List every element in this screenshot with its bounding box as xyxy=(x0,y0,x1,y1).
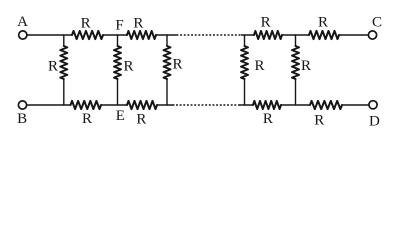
wire bottom rail: B to R5 xyxy=(27,104,71,106)
wire top rail: R1 to R2 (node F) xyxy=(103,34,127,36)
wire bottom rail: R5 to R6 (node E) xyxy=(101,104,127,106)
svg-text:R: R xyxy=(136,112,146,128)
wire top rail: A to R1 xyxy=(27,34,72,36)
svg-text:R: R xyxy=(254,58,264,74)
terminal C xyxy=(368,31,376,39)
svg-text:R: R xyxy=(318,15,328,31)
terminal A xyxy=(19,31,27,39)
wire vertical lead top of R10 xyxy=(117,35,119,46)
resistor R8 (bottom right, horizontal, bottom rail) xyxy=(310,101,342,109)
svg-text:D: D xyxy=(369,113,380,129)
resistor R10 (vertical rung 2) xyxy=(114,46,121,79)
wire vertical lead top of R11 xyxy=(166,35,168,46)
wire vertical lead bottom of R9 xyxy=(63,79,65,105)
svg-text:R: R xyxy=(261,15,271,31)
resistor R13 (vertical rung 5) xyxy=(292,46,299,79)
svg-text:B: B xyxy=(17,111,27,127)
wire vertical lead bottom of R11 xyxy=(166,79,168,105)
wire bottom rail: R6 to dotted break xyxy=(157,104,174,106)
wire vertical lead bottom of R13 xyxy=(295,79,297,105)
wire top rail: R4 to C xyxy=(339,34,368,36)
wire vertical lead top of R13 xyxy=(295,35,297,46)
wire vertical lead bottom of R12 xyxy=(244,79,246,105)
resistor R11 (vertical rung 3) xyxy=(164,46,171,79)
wire vertical lead bottom of R10 xyxy=(117,79,119,105)
terminal D xyxy=(369,101,377,109)
svg-text:R: R xyxy=(172,57,182,73)
svg-text:E: E xyxy=(116,108,125,124)
svg-text:R: R xyxy=(123,59,133,75)
svg-text:A: A xyxy=(17,14,28,30)
resistor R1 (top left, horizontal, top rail) xyxy=(72,31,103,39)
resistor R12 (vertical rung 4) xyxy=(241,46,248,79)
wire vertical lead top of R12 xyxy=(244,35,246,46)
svg-text:F: F xyxy=(115,18,123,34)
wire bottom rail: R8 to D xyxy=(342,104,369,106)
wire vertical lead top of R9 xyxy=(63,35,65,46)
wire top rail: dotted break to R3 xyxy=(242,34,255,36)
resistor R7 (bottom third, horizontal, bottom rail) xyxy=(253,101,281,109)
wire top rail: R2 to dotted break xyxy=(156,34,176,36)
resistor R5 (bottom left, horizontal, bottom rail) xyxy=(71,101,102,109)
wire top rail: R3 to R4 xyxy=(282,34,309,36)
wire bottom rail: R7 to R8 xyxy=(281,104,310,106)
resistor R4 (top right, horizontal, top rail) xyxy=(309,31,339,39)
resistor R9 (vertical rung 1) xyxy=(60,46,67,79)
wire bottom rail: dotted break to R7 xyxy=(240,104,253,106)
svg-text:C: C xyxy=(372,15,382,31)
svg-text:R: R xyxy=(48,59,58,75)
wire bottom rail dotted continuation xyxy=(176,104,240,106)
svg-text:R: R xyxy=(314,113,324,129)
resistor R2 (top second, horizontal, top rail) xyxy=(127,31,156,39)
svg-text:R: R xyxy=(133,16,143,32)
svg-text:R: R xyxy=(263,111,273,127)
svg-text:R: R xyxy=(81,16,91,32)
resistor R3 (top third, horizontal, top rail) xyxy=(254,31,282,39)
svg-text:R: R xyxy=(301,58,311,74)
resistor R6 (bottom second, horizontal, bottom rail) xyxy=(127,101,157,109)
wire top rail dotted continuation xyxy=(177,34,242,36)
terminal B xyxy=(18,101,26,109)
svg-text:R: R xyxy=(82,111,92,127)
